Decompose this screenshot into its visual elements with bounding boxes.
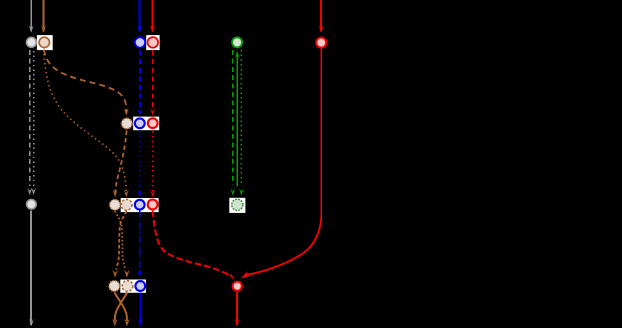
node gray row1: [26, 37, 36, 47]
node box row3: [121, 198, 159, 212]
wire peru X left row4-bottom: [115, 292, 130, 326]
node red merge: [233, 282, 242, 291]
wire blue dotted row2-row3: [137, 131, 142, 197]
node box row4: [120, 280, 146, 293]
wire gray input arrow top: [29, 0, 34, 33]
node peru row2: [121, 118, 132, 129]
node blue row1: [135, 37, 145, 47]
wire green dotted down arrow: [239, 50, 244, 196]
wire peru dashed row2-row3 crossing: [113, 131, 127, 198]
wire red dotted row2-row3: [150, 131, 155, 197]
node red row1: [148, 37, 159, 48]
wire red2 input arrow top: [319, 0, 324, 33]
wire peru input arrow top: [41, 0, 46, 33]
node gray row3: [27, 200, 37, 210]
node green row3: [232, 199, 243, 210]
wire blue dashed row1-row2: [137, 51, 142, 116]
node red row2: [148, 118, 158, 128]
wire peru dashed curve node1 to row2: [44, 50, 129, 116]
node box row2: [133, 117, 159, 131]
wire peru dotted curve node1 to row3: [44, 50, 129, 198]
wire red output arrow bottom: [235, 292, 240, 326]
node box row1 mid: [146, 35, 159, 50]
node peru dashed row3: [121, 199, 132, 210]
wire peru X right row4-bottom: [112, 292, 127, 326]
wire peru braid left row3-row4: [115, 211, 130, 278]
node red2 row1: [316, 38, 326, 48]
wire green dashed down arrow: [230, 50, 235, 196]
wire gray dashed lane: [27, 50, 32, 195]
wire blue output arrow bottom: [138, 292, 143, 326]
wire green solid up arrow: [235, 51, 240, 187]
wire red2 curve to merge node: [241, 48, 322, 279]
node red row3: [148, 200, 158, 210]
wire gray dotted lane: [31, 51, 36, 195]
node green row1: [232, 37, 242, 47]
node peru dotted row4: [109, 281, 120, 292]
wire blue dashdot row3-row4: [137, 211, 142, 278]
node blue row4: [135, 281, 145, 291]
wire peru braid right row3-row4: [112, 211, 126, 278]
node peru row1: [39, 37, 49, 47]
node blue row2: [135, 118, 145, 128]
wire gray output arrow bottom: [29, 211, 34, 327]
node box row1 left: [37, 35, 53, 50]
node blue row3: [135, 200, 145, 210]
node peru dashed row4: [122, 281, 133, 292]
wire red input arrow top: [150, 0, 155, 33]
wire blue input arrow top: [137, 0, 142, 33]
node box green row3: [229, 198, 245, 213]
wire red dashed row1-row2: [150, 51, 155, 116]
wire red dashed curve row3 to merge node: [153, 211, 234, 281]
node peru dotted row3: [110, 199, 121, 210]
